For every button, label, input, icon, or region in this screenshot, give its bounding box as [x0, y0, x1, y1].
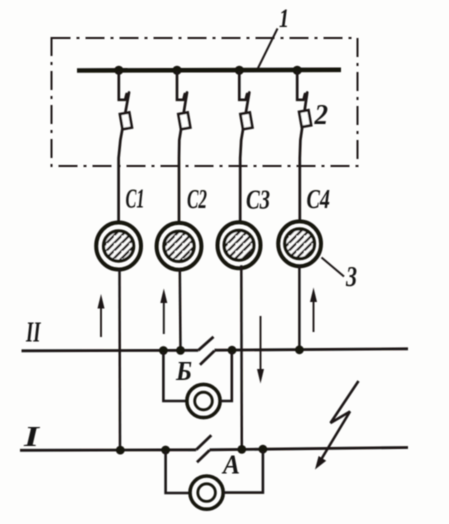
dashed enclosure (busbar cubicle) [52, 38, 358, 166]
node: bus II / loop Б right [228, 346, 237, 355]
node: bus I / loop A left [161, 446, 170, 455]
current arrow down col3 [257, 316, 264, 384]
node: bus I / loop A right [259, 445, 268, 454]
svg-text:I: I [23, 422, 41, 453]
label 1 leader [258, 29, 278, 69]
svg-text:C3: C3 [246, 185, 270, 215]
fuse-disconnector col1 (type 2) [119, 72, 132, 221]
node: bus II / loop Б left [159, 346, 168, 355]
wire col3 below C3 down to bus I [240, 265, 243, 450]
node: bus I / wire col1 [116, 446, 125, 455]
wire col2 below C2 to bus II [179, 269, 182, 351]
svg-text:A: A [221, 450, 240, 480]
busbar 1 [77, 68, 341, 73]
bus II wire right segment [215, 349, 409, 350]
bus II wire left segment [22, 349, 199, 352]
lightning surge arrow [315, 381, 359, 470]
knife switch A blade [196, 435, 211, 450]
bus I wire left segment [20, 448, 196, 451]
svg-text:3: 3 [345, 262, 357, 293]
current arrow up col4 [310, 288, 317, 333]
capacitor unit C1 [96, 223, 141, 270]
capacitor unit C2 [157, 223, 202, 270]
knife switch A lower contact [197, 450, 210, 462]
svg-text:2: 2 [314, 99, 328, 131]
wire col4 below C4 to bus II [298, 266, 301, 351]
node: bus junction col4 [293, 66, 302, 75]
wire loop A left [166, 451, 190, 493]
current arrow up col1 [98, 294, 105, 337]
node: bus II / wire col2 [176, 346, 185, 355]
capacitor unit C4 [278, 221, 321, 266]
wire col1 below C1 down to bus I [118, 268, 121, 450]
svg-text:1: 1 [279, 4, 289, 33]
svg-text:C4: C4 [307, 184, 331, 214]
svg-text:II: II [25, 318, 41, 349]
svg-text:Б: Б [175, 356, 192, 386]
node: bus junction col3 [235, 66, 244, 75]
knife switch Б blade [198, 337, 213, 351]
current arrow up col2 [160, 289, 167, 335]
fuse-disconnector col2 (type 2) [177, 72, 190, 222]
knife switch Б lower contact [200, 351, 215, 365]
wire loop Б right [220, 352, 232, 401]
node: bus junction col2 [172, 66, 181, 75]
bus I wire right segment [210, 448, 409, 450]
wire loop A right [223, 451, 263, 493]
node: bus II / wire col4 [295, 345, 304, 354]
capacitor unit C3 [218, 222, 261, 268]
node: bus I / wire col3 [237, 445, 246, 454]
lamp Б [187, 384, 220, 417]
fuse-disconnector col3 (type 2) [239, 72, 252, 222]
label 3 leader [322, 258, 345, 277]
fuse-disconnector col4 (type 2) [297, 72, 311, 220]
svg-text:C1: C1 [126, 184, 145, 214]
node: bus junction col1 [114, 66, 123, 75]
lamp A [190, 476, 223, 509]
wire loop Б left [163, 352, 186, 401]
svg-text:C2: C2 [187, 184, 207, 214]
